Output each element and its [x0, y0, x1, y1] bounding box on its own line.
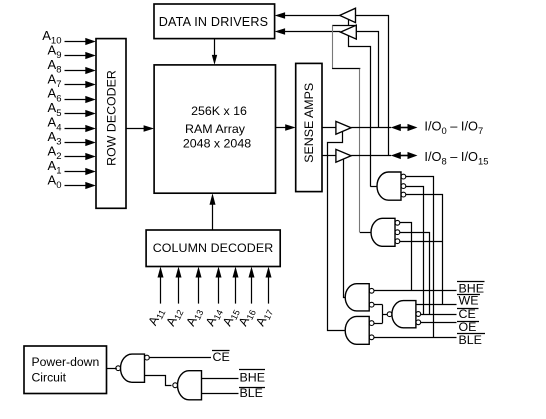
- gate GB 2-input with output bubble: [173, 371, 202, 400]
- wire I/O0-7 line: [351, 127, 391, 129]
- wire T1 input from I/O8-15 line: [356, 16, 389, 156]
- label BHE bottom: [239, 370, 265, 385]
- wire WE label: [416, 304, 457, 306]
- wire I/O8-15 line: [351, 155, 391, 157]
- block DATA IN DRIVERS: [154, 4, 275, 39]
- svg-text:Power-down: Power-down: [32, 355, 100, 369]
- label BLE: [457, 333, 485, 347]
- wire buffer B enable from gate G3 output: [344, 160, 346, 298]
- block Power-down Circuit: [24, 346, 107, 394]
- label CE: [457, 307, 479, 321]
- input A12 with arrow into column decoder: [163, 267, 185, 330]
- wire G4 input from G5: [374, 323, 383, 325]
- input A15 with arrow into column decoder: [220, 267, 242, 330]
- input A13 with arrow into column decoder: [183, 267, 205, 330]
- buffer B I/O8-15 output: [336, 149, 351, 162]
- wire G3 input BHE: [374, 290, 457, 292]
- label WE: [457, 293, 480, 307]
- block ROW DECODER: [96, 39, 126, 209]
- svg-text:CE: CE: [213, 350, 230, 364]
- input A8 with arrow into row decoder: [48, 57, 96, 76]
- input A9 with arrow into row decoder: [48, 42, 96, 61]
- wire CE label: [421, 314, 457, 316]
- label I/O0 - I/O7: [424, 119, 483, 136]
- label BHE: [457, 282, 485, 296]
- wire T2 output to data-in-drivers with arrow: [275, 28, 341, 34]
- gate G2 3-input: [371, 218, 400, 246]
- wire sense amps to buffer B: [322, 155, 336, 157]
- wire column decoder to RAM array with arrow: [210, 193, 216, 230]
- wire G3 input from G5: [374, 304, 383, 306]
- input A3 with arrow into row decoder: [48, 129, 96, 148]
- input A2 with arrow into row decoder: [48, 143, 96, 162]
- wire T1 output to data-in-drivers with arrow: [275, 12, 340, 18]
- svg-text:COLUMN DECODER: COLUMN DECODER: [153, 241, 274, 255]
- wire G1 output: [370, 186, 377, 188]
- svg-text:RAM Array: RAM Array: [185, 122, 246, 136]
- wire G1 input WE: [406, 195, 443, 305]
- wire G2 output: [360, 232, 372, 234]
- block COLUMN DECODER: [146, 230, 280, 267]
- buffer A I/O0-7 output: [336, 121, 351, 134]
- wire RAM array to sense amps with arrow: [276, 124, 296, 130]
- wire G1 input BLE: [406, 177, 434, 338]
- svg-text:SENSE AMPS: SENSE AMPS: [302, 83, 316, 163]
- wire OE label: [421, 322, 457, 324]
- gate G4 2-input: [345, 316, 374, 344]
- svg-text:2048 x 2048: 2048 x 2048: [183, 137, 251, 151]
- input A16 with arrow into column decoder: [236, 267, 258, 330]
- wire row decoder to RAM array with arrow: [126, 125, 154, 131]
- input A14 with arrow into column decoder: [203, 267, 225, 330]
- double arrow I/O0-7: [391, 124, 418, 131]
- svg-text:256K x 16: 256K x 16: [191, 104, 247, 118]
- wire G2 input BHE: [400, 223, 412, 291]
- wire power-down box to GA output: [107, 368, 117, 370]
- input A10 with arrow into row decoder: [42, 28, 96, 47]
- wire buffer A enable from gate G4 output: [328, 132, 345, 331]
- block RAM array 256Kx16: [154, 65, 275, 193]
- gate G5 3-input with output bubble: [387, 301, 420, 328]
- svg-text:BLE: BLE: [459, 333, 482, 347]
- wire T2 input from I/O0-7 line: [357, 32, 379, 128]
- input A4 with arrow into row decoder: [48, 115, 96, 134]
- input A11 with arrow into column decoder: [146, 267, 168, 329]
- wire T1 enable from gate G2 output: [332, 19, 360, 232]
- wire GA input2 from GB output: [145, 376, 172, 386]
- input A1 with arrow into row decoder: [48, 158, 96, 177]
- buffer T1 data-in high byte: [340, 8, 356, 22]
- buffer T2 data-in low byte: [341, 25, 357, 39]
- label CE bottom: [212, 350, 230, 364]
- svg-text:BLE: BLE: [240, 386, 263, 400]
- wire G5 output: [383, 314, 388, 316]
- gate G3 2-input: [345, 284, 374, 311]
- wire GA input1 to CE label: [149, 357, 211, 359]
- wire G4 input BLE: [374, 337, 457, 339]
- gate GA power-down 2-input with output bubble and inverted top input: [116, 354, 150, 382]
- gate G1 3-input: [377, 172, 406, 200]
- input A17 with arrow into column decoder: [253, 267, 275, 330]
- input A7 with arrow into row decoder: [48, 71, 96, 90]
- wire G2 input CE: [400, 233, 430, 315]
- wire G5 junction vertical: [382, 305, 384, 323]
- wire GB input1 to BHE label: [202, 378, 239, 380]
- label BLE bottom: [239, 386, 265, 400]
- input A0 with arrow into row decoder: [48, 172, 96, 191]
- wire sense amps to buffer A: [322, 127, 336, 129]
- svg-text:I/O0 – I/O7: I/O0 – I/O7: [424, 119, 483, 136]
- wire data-in-drivers to RAM array with arrow: [212, 39, 217, 65]
- svg-text:ROW DECODER: ROW DECODER: [105, 70, 119, 166]
- svg-text:WE: WE: [459, 293, 479, 307]
- svg-text:Circuit: Circuit: [32, 370, 67, 384]
- wire G2 input WE: [400, 241, 442, 243]
- wire G1 input CE: [406, 187, 424, 315]
- wire T2 enable from gate G1 output: [349, 36, 371, 187]
- label I/O8 - I/O15: [424, 149, 488, 166]
- wire GB input2 to BLE label: [202, 393, 239, 395]
- input A6 with arrow into row decoder: [48, 86, 96, 105]
- svg-text:BHE: BHE: [240, 371, 265, 385]
- label OE: [457, 320, 479, 334]
- double arrow I/O8-15: [391, 152, 418, 159]
- block SENSE AMPS: [296, 63, 322, 191]
- svg-text:DATA IN DRIVERS: DATA IN DRIVERS: [159, 15, 269, 29]
- input A5 with arrow into row decoder: [48, 100, 96, 119]
